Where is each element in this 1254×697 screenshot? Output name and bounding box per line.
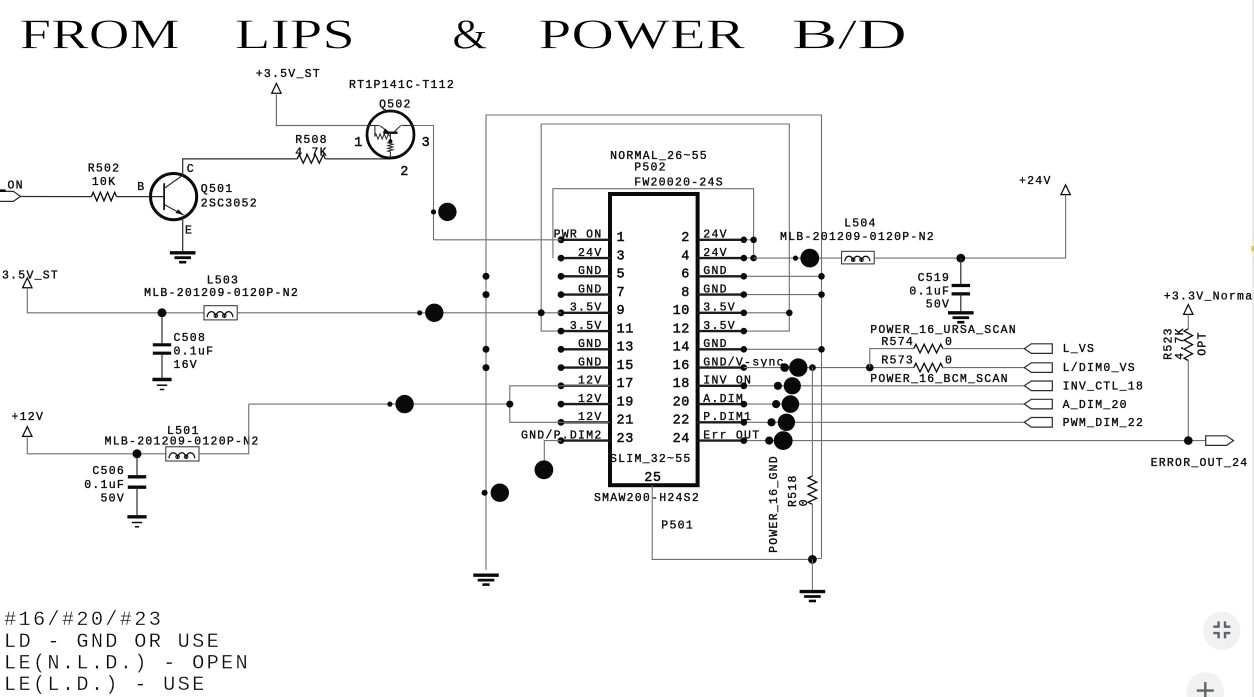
svg-text:1: 1 [617,231,626,246]
svg-text:A_DIM_20: A_DIM_20 [1063,399,1128,412]
wire Q501 collector up-right [183,159,298,176]
svg-text:C506: C506 [92,465,125,478]
node ON input connector flag [0,191,20,201]
node junction on PWR ON vertical [431,209,436,214]
pin 8 stub (GND) [698,293,744,295]
svg-text:+3.5V_ST: +3.5V_ST [256,68,321,81]
svg-text:#16/#20/#23: #16/#20/#23 [4,609,163,632]
svg-text:ERROR_OUT_24: ERROR_OUT_24 [1151,457,1249,470]
svg-text:0.1uF: 0.1uF [909,285,950,298]
pin 2 stub (24V) [698,239,744,241]
pin 7 stub (GND) [561,293,611,295]
pin 24 stub (Err OUT) [698,439,744,441]
wire L503 to 3.5V net [237,312,240,314]
svg-text:13: 13 [617,341,634,356]
node dot 3.5V [417,310,422,315]
node dot pin24 stub [740,437,747,444]
node dots pin10 row [741,310,748,317]
svg-text:3: 3 [617,249,626,264]
node dot V-sync b [809,364,816,371]
svg-text:1: 1 [354,136,363,151]
wire C506 top [136,458,138,475]
svg-text:Q501: Q501 [201,183,234,196]
svg-text:PWM_DIM_22: PWM_DIM_22 [1063,417,1145,430]
svg-text:+24V: +24V [1019,175,1052,188]
svg-text:9: 9 [617,304,626,319]
node blob P.DIM1 [778,414,795,431]
node junction C519 [956,254,965,263]
pin 14 stub (GND) [698,348,744,350]
svg-text:Q502: Q502 [379,98,412,111]
wire +12V arrow to L501 [27,436,166,453]
svg-text:10: 10 [673,304,690,319]
svg-text:3.5V_ST: 3.5V_ST [2,269,59,282]
wire L501 up to 12V net [199,404,249,454]
inductor L503 [204,306,237,320]
pin 17 stub (12V) [561,385,611,387]
wire R574 elbow [870,349,914,368]
svg-text:2SC3052: 2SC3052 [201,197,258,210]
node dots pin4 row [741,255,748,262]
node dots pin14 row [741,346,748,353]
wire PWR ON pin1 [434,239,562,241]
svg-text:GND/P.DIM2: GND/P.DIM2 [521,429,603,442]
resistor R523 4.7K OPT [1184,329,1193,361]
svg-text:C: C [187,163,195,176]
node blob 12V [395,395,413,413]
ground C506 [127,517,146,527]
ground C508 [152,380,171,390]
svg-text:11: 11 [617,322,634,337]
resistor R573 0 [914,363,943,372]
pin 5 stub (GND) [561,275,611,277]
ui button fit-screen [1203,613,1240,650]
wire 3.5V bus left elbow to pin11 [541,313,609,331]
svg-text:FROM: FROM [20,13,180,59]
node dots pin6 row [741,273,748,280]
wire R518 top [811,368,813,476]
pin 13 stub (GND) [561,348,611,350]
svg-text:MLB-201209-0120P-N2: MLB-201209-0120P-N2 [780,231,935,244]
transistor Q501 2SC3052 [151,174,197,220]
node GND bus dots left [483,273,490,280]
svg-text:L_VS: L_VS [1063,343,1096,356]
node junction ERROR_OUT [1184,436,1193,445]
wire C519 bottom [960,294,962,311]
node flag PWM_DIM_22 [1024,418,1052,428]
node blob INV ON [784,377,801,394]
svg-text:R574: R574 [881,336,914,349]
wire GND/P.DIM2 elbow pin23 [544,441,561,463]
svg-text:R508: R508 [295,134,328,147]
node blob V-sync [789,358,807,376]
resistor R508 [297,155,325,164]
svg-text:12: 12 [673,322,690,337]
svg-text:15: 15 [617,359,634,374]
node dot pin22 stub [740,419,747,426]
svg-text:GND: GND [578,338,602,351]
node blob A.DIM [782,395,800,413]
node dots pin2 row [741,237,748,244]
svg-text:0: 0 [945,355,953,368]
capacitor C506 [128,477,146,487]
svg-text:3.5V: 3.5V [570,320,603,333]
resistor R518 0 [808,476,817,504]
svg-text:B/D: B/D [792,13,907,59]
wire pin4 to L504 [754,257,842,259]
wire 12V net to pin19 [249,403,510,405]
resistor R502 [91,192,116,201]
wire +24V arrow down [1065,195,1067,259]
svg-text:0.1uF: 0.1uF [84,479,125,492]
node blob GND/P.DIM2 [535,460,554,479]
inductor L501 [166,447,199,461]
svg-text:2: 2 [681,231,690,246]
svg-text:3: 3 [422,136,431,151]
wire pin25 stub [652,485,812,559]
node dot pin12 row [741,328,748,335]
transistor Q502 RT1P141C-T112 [367,111,414,158]
svg-text:24V: 24V [578,247,602,260]
svg-text:3.5V: 3.5V [570,302,603,315]
svg-text:3.5V: 3.5V [703,320,736,333]
wire 24V rect [553,189,754,258]
svg-text:GND: GND [703,265,727,278]
svg-text:MLB-201209-0120P-N2: MLB-201209-0120P-N2 [144,287,299,300]
svg-text:4: 4 [681,249,690,264]
node dot pin18 stub [740,382,747,389]
svg-text:14: 14 [673,341,690,356]
svg-text:24V: 24V [703,229,727,242]
ground POWER_16_GND [800,592,826,601]
pin 6 stub (GND) [698,275,744,277]
svg-text:0: 0 [945,336,953,349]
wire C506 bottom [136,487,138,515]
svg-text:10K: 10K [92,176,116,189]
node junction POWER_16_GND [808,555,817,564]
node dot 24V [793,256,798,261]
svg-text:OPT: OPT [1197,331,1210,355]
wire R573 to L/DIM0_VS flag [943,367,1025,369]
svg-text:LD - GND OR USE: LD - GND OR USE [4,631,221,654]
svg-text:21: 21 [617,414,634,429]
svg-text:LIPS: LIPS [235,13,355,59]
wire Q502 collector to PWR ON net [414,126,434,240]
node blob GND bus [491,484,509,502]
svg-text:B: B [137,181,145,194]
wire GND bus right elbow [812,558,821,560]
wire GND bus outer rect top [486,115,822,570]
ui scrollbar track [1252,0,1254,697]
wire Err OUT pin24 to ERROR_OUT_24 [744,440,1206,442]
node flag A_DIM_20 [1024,399,1052,409]
wire R574 to L_VS flag [943,348,1025,350]
node dot INV ON [774,382,782,390]
svg-text:6: 6 [681,268,690,283]
svg-text:19: 19 [617,395,634,410]
svg-text:16V: 16V [174,359,198,372]
wire C508 top [161,317,163,343]
wire R508 to Q502 pin2 [325,156,390,159]
svg-text:P502: P502 [634,161,667,174]
node junction C508 [158,308,167,317]
pin 11 stub (3.5V) [561,330,611,332]
pin 10 stub (3.5V) [698,312,744,314]
node blob 3.5V [425,304,443,322]
svg-text:+12V: +12V [12,411,45,424]
node flag ERROR_OUT_24 [1206,436,1234,446]
svg-text:C508: C508 [174,332,207,345]
pin 1 stub (PWR ON) [561,239,611,241]
wire 12V elbow pins 17/19/21 [510,386,609,423]
node junction C506 [133,449,142,458]
svg-text:2: 2 [400,165,409,180]
wire R518 bottom [811,504,813,559]
pin 22 stub (P.DIM1) [698,421,744,423]
pin 12 stub (3.5V) [698,330,744,332]
wire 3.5V net L503 to pin9 [237,312,561,314]
pin 4 stub (24V) [698,257,744,259]
svg-text:C519: C519 [918,272,951,285]
svg-text:0: 0 [798,498,811,506]
node dots pin8 row [741,291,748,298]
svg-text:LE(N.L.D.) - OPEN: LE(N.L.D.) - OPEN [4,653,250,676]
wire C519 top [960,258,962,284]
svg-text:24: 24 [673,432,690,447]
pin 18 stub (INV ON) [698,385,744,387]
svg-text:8: 8 [681,286,690,301]
node flag INV_CTL_18 [1024,381,1052,391]
svg-text:A.DIM: A.DIM [703,393,744,406]
svg-text:R502: R502 [88,163,121,176]
ui button zoom-in [1187,673,1224,697]
wire INV ON pin18 to flag [744,385,1025,387]
title text FROM LIPS & POWER B/D [20,13,907,59]
ground C519 [948,313,974,322]
svg-text:INV_CTL_18: INV_CTL_18 [1063,380,1145,393]
pin 15 stub (GND) [561,366,611,368]
ground GND bus bottom [473,575,499,584]
wire ON to R502 [20,196,91,198]
svg-text:GND: GND [578,356,602,369]
svg-text:23: 23 [617,432,634,447]
connector box P502/P501 outline [610,194,698,485]
svg-text:22: 22 [673,414,690,429]
svg-text:4.7K: 4.7K [1174,327,1187,360]
svg-text:20: 20 [673,395,690,410]
svg-text:SLIM_32~55: SLIM_32~55 [610,453,692,466]
wire L504 to +24V [874,257,1065,259]
svg-text:POWER_16_GND: POWER_16_GND [768,455,781,553]
pin 9 stub (3.5V) [561,312,611,314]
pin 3 stub (24V) [561,257,611,259]
node blob 24V [800,249,819,268]
capacitor C519 [952,286,970,294]
svg-text:+3.3V_Normal: +3.3V_Normal [1164,291,1254,304]
svg-text:GND: GND [578,283,602,296]
svg-text:FW20020-24S: FW20020-24S [634,176,724,189]
svg-text:24V: 24V [703,247,727,260]
svg-text:17: 17 [617,377,634,392]
wire C508 bottom [161,355,163,378]
svg-text:7: 7 [617,286,626,301]
ground Q501 emitter [170,253,196,262]
node dot pin16 row [741,364,748,371]
svg-text:GND: GND [703,338,727,351]
inductor L504 [842,251,875,264]
svg-text:16: 16 [673,359,690,374]
svg-text:GND: GND [703,283,727,296]
svg-text:&: & [452,13,487,59]
svg-text:GND: GND [578,265,602,278]
node dot P.DIM1 [767,418,775,426]
node flag L/DIM0_VS [1024,363,1052,373]
node dot Err OUT [765,437,773,445]
wire arrow to R523 [1187,314,1189,328]
wire +3.5V_ST to Q502 pin1 [276,93,367,125]
node flag L_VS [1024,344,1052,354]
svg-text:P501: P501 [661,520,694,533]
svg-text:L504: L504 [844,217,877,230]
svg-text:5: 5 [617,268,626,283]
node junction R574 [866,364,874,372]
wire 3.5V bus right elbow to pin12 [754,313,790,331]
wire R502 to Q501 base [117,196,165,198]
svg-text:L/DIM0_VS: L/DIM0_VS [1063,362,1136,375]
svg-text:ON: ON [8,179,24,192]
svg-text:POWER_16_BCM_SCAN: POWER_16_BCM_SCAN [870,373,1009,386]
pin 21 stub (12V) [561,421,611,423]
svg-text:POWER: POWER [539,13,746,59]
wire A.DIM pin20 to flag [744,403,1025,405]
resistor R574 0 [914,344,943,353]
svg-text:4.7K: 4.7K [295,146,328,159]
svg-text:R573: R573 [881,355,914,368]
wire Q501 emitter down [182,216,184,251]
node dot V-sync a [780,363,789,372]
svg-text:18: 18 [673,377,690,392]
node dot A.DIM [772,400,780,408]
svg-text:E: E [185,224,193,237]
pin 20 stub (A.DIM) [698,403,744,405]
wire 3.5V_ST arrow to L503 [27,288,204,313]
node dot pin20 stub [740,401,747,408]
wire R523 to Err OUT net [1187,361,1189,441]
svg-text:LE(L.D.) - USE: LE(L.D.) - USE [4,674,207,697]
node dot 12V [387,402,392,407]
wire GND/V-sync pin16 to R573 row [744,367,914,369]
svg-text:50V: 50V [101,493,125,506]
svg-text:25: 25 [644,471,661,486]
pin 23 stub (GND/P.DIM2) [561,439,611,441]
svg-text:50V: 50V [926,298,950,311]
svg-text:12V: 12V [578,393,602,406]
svg-text:RT1P141C-T112: RT1P141C-T112 [349,79,455,92]
wire P.DIM1 pin22 to flag [744,421,1025,423]
svg-text:L503: L503 [207,275,240,288]
node blob PWR ON [438,203,456,221]
wire 3.5V bus rect [541,124,789,313]
svg-text:3.5V: 3.5V [703,302,736,315]
pin 16 stub (GND/V-sync) [698,366,744,368]
wire junction to ground [811,559,813,590]
node blob Err OUT [774,431,793,450]
capacitor C508 [153,345,171,353]
svg-text:MLB-201209-0120P-N2: MLB-201209-0120P-N2 [105,435,260,448]
node dot GND bus bottom [482,490,488,496]
svg-text:0.1uF: 0.1uF [174,346,215,359]
svg-text:SMAW200-H24S2: SMAW200-H24S2 [594,492,700,505]
pin 19 stub (12V) [561,403,611,405]
